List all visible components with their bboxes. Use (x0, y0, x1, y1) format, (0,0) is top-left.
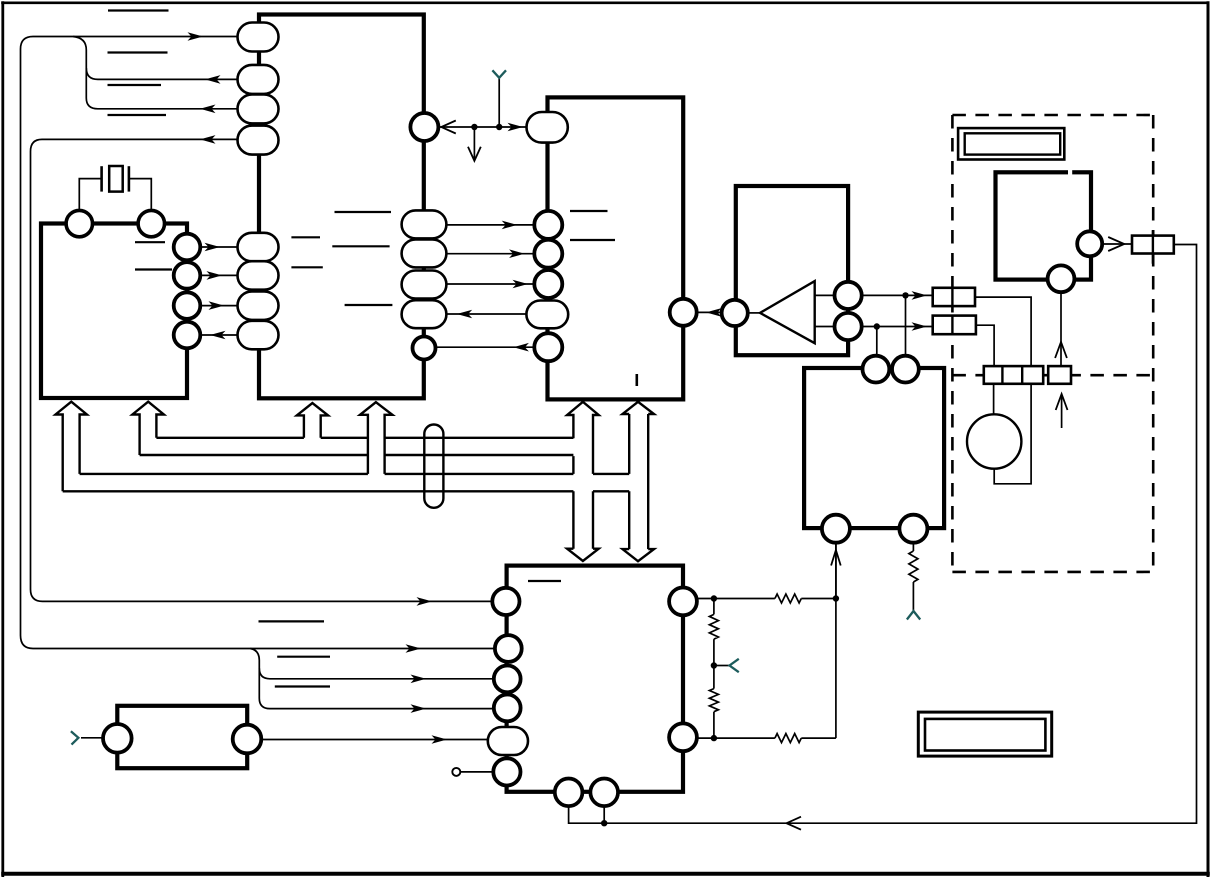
block B top pin (527, 112, 568, 143)
hollow arrow into block C (right) (132, 402, 164, 455)
block A right pins (402, 210, 447, 238)
wire: block H input (81, 737, 103, 739)
hollow arrow into block A (right) (360, 402, 392, 474)
wire: into block A oval3 (86, 98, 238, 109)
connector J5 (single cell) (1048, 366, 1071, 384)
wires: rows 3-4 into block G from bundle (250, 649, 494, 709)
block G bottom pins (555, 779, 583, 807)
dashed option box (952, 114, 1153, 117)
block B left pin oval (526, 301, 568, 329)
block B: RF IC (548, 97, 684, 399)
wire: motor return loop (994, 384, 1031, 484)
block A left pins (top group) (238, 23, 279, 52)
wire: multiconnector to motor (993, 384, 995, 415)
wire: connector box1 to multiconnector (975, 297, 1031, 366)
block E bottom pins (822, 515, 850, 543)
wire: block E right pin down to ground (912, 544, 914, 551)
multipin connector J4 (984, 366, 1043, 384)
wire: connector box2 to multiconnector (976, 325, 994, 366)
hollow arrow into block A (left) (297, 403, 328, 438)
connector box J3 (2-cell) (1132, 236, 1174, 254)
block C top pins (66, 210, 92, 236)
block E top pins (863, 356, 890, 383)
resistor divider lower (709, 689, 718, 712)
wire: antenna stub (498, 78, 500, 127)
wire: stub below connector (1061, 394, 1063, 428)
block H pins (103, 724, 132, 753)
ground mark mid divider (730, 659, 739, 672)
block A left pins (lower group) (238, 233, 279, 261)
ground mark below block E (907, 611, 920, 620)
wire: open terminal to block G (460, 771, 493, 773)
block H: filter (117, 706, 247, 768)
open terminal (452, 768, 460, 776)
resistor to ground at block E (909, 551, 918, 582)
label plate bottom right (double frame) (918, 712, 1051, 756)
wire: into block A oval4, from second trunk (31, 139, 493, 601)
wire: block E left pin down to resistor node (835, 544, 837, 599)
arrowheads on wires (188, 32, 204, 41)
block G right pins (669, 588, 697, 616)
connector box J1 (933, 288, 975, 306)
block G left pin oval (488, 727, 528, 755)
block A right lower pin (413, 337, 436, 360)
antenna symbol top (492, 70, 506, 78)
power bus channel lines (156, 437, 573, 439)
hollow double arrow B/G (right) (629, 414, 648, 549)
crystal X1 (100, 166, 103, 191)
wires: block A to block B rows (447, 224, 534, 226)
junction dots (471, 124, 477, 130)
wire: block H output to block G (261, 739, 488, 741)
wires: block C to block A rows (200, 246, 237, 248)
wire: antenna net between A and B (438, 126, 526, 128)
gap artifact on block F top edge (1068, 169, 1072, 175)
block C: reference oscillator unit (41, 224, 187, 399)
block E: PLL unit (804, 368, 944, 528)
wire: block B to amp block D (697, 311, 722, 313)
block G: control IC (507, 566, 683, 792)
block D: audio amp (736, 186, 848, 355)
wire: down arrow stub (473, 127, 475, 159)
resistor divider upper (709, 614, 718, 639)
dashed internal divider (952, 374, 1153, 377)
cable stadium on bus (424, 425, 443, 508)
block A: main IC (259, 15, 424, 399)
block G left pins (492, 588, 519, 615)
label plate top right (double frame) (958, 128, 1064, 159)
block F pins (1077, 231, 1102, 256)
hollow arrow into block C (left) (56, 402, 87, 492)
block F: option unit (996, 172, 1092, 279)
resistor R bottom (775, 734, 801, 743)
block B right pin (670, 299, 697, 326)
wires: block G bottom pins junction (569, 806, 604, 823)
crystal X1 leads (79, 179, 101, 211)
wire: branch trunk down from row1 (73, 37, 86, 99)
op-amp triangle U-D (760, 281, 815, 343)
block D left pin (722, 300, 748, 326)
connector box J2 (933, 316, 976, 335)
block A antenna pin (410, 113, 438, 141)
wire: long feedback from 2-cell connector to block G (604, 245, 1197, 824)
wire: into block A oval2 (86, 68, 238, 79)
block D right pins (835, 282, 862, 309)
input probe at block H (71, 731, 79, 744)
motor M (967, 414, 1021, 468)
wire: block F to 2-cell connector (1102, 243, 1132, 245)
block C right pins (174, 234, 201, 261)
resistor R top (775, 594, 801, 603)
hollow double arrow B/G (left) (567, 402, 599, 474)
wire: top row1 into block A oval1, from left trunk (21, 37, 496, 649)
outer page border (1, 1, 1209, 4)
block B left pins (534, 211, 562, 239)
wires: amp block D outputs to connector boxes (862, 294, 933, 296)
wire: block F pin2 down to connector (1060, 292, 1062, 366)
resistor divider network wires (697, 598, 836, 600)
I mark in block B (635, 374, 638, 386)
label underlines (stripped text) (108, 9, 169, 11)
